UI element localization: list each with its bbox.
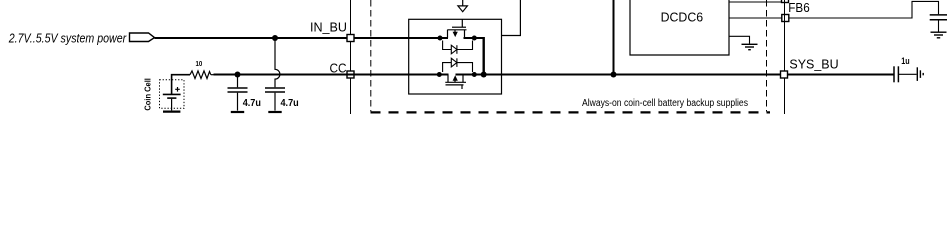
node junction dot at (275,38) (272, 35, 278, 41)
svg-text:SYS_BU: SYS_BU (789, 56, 838, 71)
pin FB6 (cut at top) (782, 0, 789, 3)
node thick bar (mux common node) (483, 37, 485, 75)
node junction dot at cap1 (235, 72, 241, 78)
wire FB6 top (729, 1, 782, 3)
power arrow symbol at top (462, 0, 464, 6)
pin IN_BU (347, 35, 354, 42)
resistor 10 (190, 71, 211, 79)
wire to top-right capacitor (789, 1, 939, 18)
svg-text:Always-on coin-cell battery ba: Always-on coin-cell battery backup suppl… (582, 98, 748, 109)
node junction dot at bar/CC rail (481, 72, 487, 78)
ground of C2 (cut) (268, 111, 281, 113)
pin SYS_BU (781, 71, 788, 78)
svg-text:DCDC6: DCDC6 (661, 9, 704, 24)
battery ground (cut at image bottom) (163, 110, 180, 112)
ground sideways (right of 1u cap) (916, 67, 918, 81)
capacitor 1u (893, 66, 895, 82)
svg-text:Coin Cell: Coin Cell (143, 78, 153, 111)
node junction dot (611, 72, 617, 78)
wire second feedback line (729, 17, 782, 19)
input tag symbol (130, 33, 155, 42)
capacitor top-right (930, 14, 947, 16)
DCDC6 block box (630, 0, 729, 55)
body diode D2 (443, 63, 473, 72)
battery plates (163, 93, 181, 95)
svg-text:CC: CC (330, 60, 347, 75)
ground of top-right capacitor (931, 31, 947, 33)
svg-text:IN_BU: IN_BU (310, 19, 347, 34)
capacitor C 4.7u #1 (237, 75, 239, 88)
svg-text:10: 10 (196, 61, 203, 68)
pad squares Q1 (438, 36, 443, 41)
wire IN_BU rail (155, 37, 348, 39)
pin CC (347, 71, 354, 78)
wire CC rail (resistor to far right) (211, 74, 214, 76)
body diode D1 (443, 41, 473, 50)
svg-text:2.7V..5.5V system power: 2.7V..5.5V system power (8, 31, 127, 46)
svg-text:1u: 1u (901, 56, 910, 67)
pin (unlabeled) (782, 15, 789, 22)
capacitor C 4.7u #2 (265, 87, 285, 89)
svg-text:FB6: FB6 (788, 0, 809, 15)
ground of C1 (cut) (231, 111, 244, 113)
power-mux box (409, 19, 502, 94)
ground under DCDC6 (729, 36, 750, 44)
transistor Q2 (bottom FET) (445, 75, 466, 90)
dashed region box: always-on supplies (370, 0, 372, 112)
battery BT plus sign (175, 87, 180, 92)
wire vertical drop from junction with hop over CC rail (275, 38, 280, 87)
wire mux gate-drive exit (right side jog, up and off top) (502, 0, 521, 36)
block boundary line left (x=350.5) (350, 0, 352, 114)
svg-text:4.7u: 4.7u (243, 98, 261, 109)
transistor Q1 (top FET) (447, 19, 466, 38)
block boundary line right (x=784) (784, 0, 786, 114)
svg-text:4.7u: 4.7u (281, 98, 299, 109)
wire IN_BU pin to mux box (354, 37, 448, 39)
wire resistor left lead (172, 75, 190, 94)
wire DCDC6 input drop (thick, from top edge to rail) (613, 0, 615, 75)
pad squares Q2 (437, 72, 442, 77)
coin cell dashed box (160, 80, 185, 109)
